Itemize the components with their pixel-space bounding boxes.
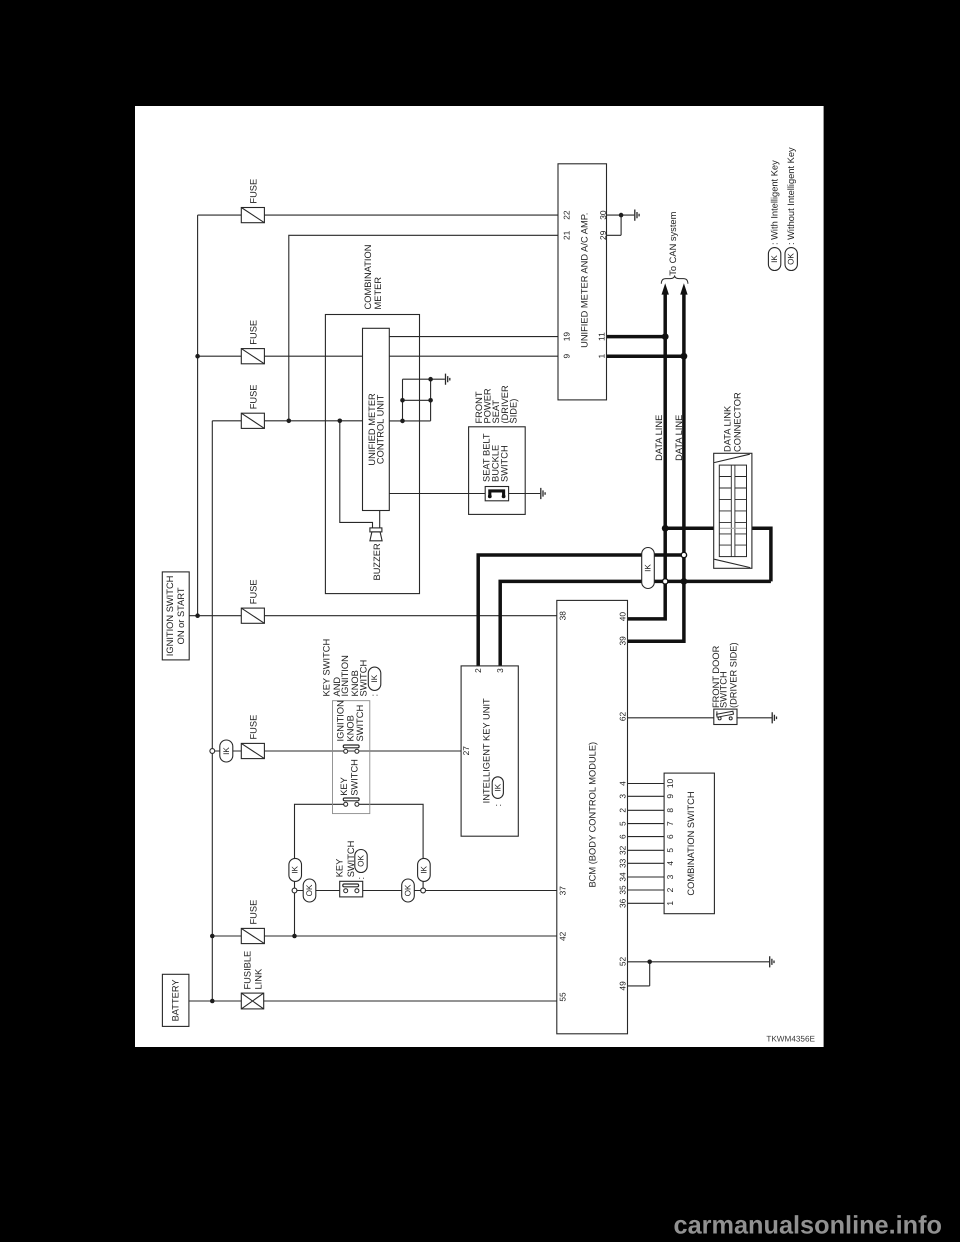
junction dot rail1 fuse2: [195, 354, 200, 359]
blade front door switch: [717, 711, 734, 717]
svg-text:KEY: KEY: [334, 859, 344, 878]
wire seat belt switch: [389, 493, 540, 495]
svg-text:DATA LINE: DATA LINE: [674, 415, 684, 461]
wire BCM pin52 to ground: [628, 961, 770, 963]
svg-text:LINK: LINK: [253, 968, 263, 989]
capsule OK left branch: [303, 879, 316, 902]
svg-text:9: 9: [665, 794, 675, 799]
svg-text:DATA LINE: DATA LINE: [654, 415, 664, 461]
svg-text:FUSE: FUSE: [249, 385, 259, 410]
contact circles front door switch: [718, 717, 721, 720]
svg-text:42: 42: [558, 931, 568, 941]
BCM box: [557, 600, 628, 1033]
capsule IK at fuse5: [220, 740, 233, 762]
svg-text:SWITCH: SWITCH: [358, 660, 368, 697]
capsule OK in key switch OK label: [355, 850, 367, 873]
wire fuse2 feed: [198, 355, 242, 357]
svg-text:IK: IK: [291, 866, 300, 874]
buzzer horn: [370, 532, 382, 541]
wire fuse3 to UMCU: [264, 420, 363, 422]
svg-text:21: 21: [561, 230, 571, 240]
svg-text:COMBINATION: COMBINATION: [363, 245, 373, 310]
plunger key switch: [343, 798, 359, 801]
key switch OK box: [340, 881, 363, 897]
junction dot rail2 battery: [210, 999, 215, 1004]
arrowhead CAN2 to CAN system: [680, 283, 687, 294]
svg-text:11: 11: [597, 332, 607, 341]
svg-text:FUSE: FUSE: [249, 900, 259, 925]
svg-text:METER: METER: [373, 277, 383, 310]
junction dot CAN2 pin1: [681, 353, 688, 360]
svg-text:IGNITION SWITCH: IGNITION SWITCH: [165, 576, 175, 657]
wire IKU pin2 to CAN2: [478, 555, 684, 666]
data link connector box: [714, 453, 752, 568]
fuse F6: [241, 928, 264, 943]
svg-text:SIDE): SIDE): [509, 399, 519, 424]
ground ladder at UMCU: [389, 379, 445, 421]
svg-text:3: 3: [495, 668, 505, 673]
svg-text:CONNECTOR: CONNECTOR: [733, 392, 743, 452]
fuse F1: [241, 208, 264, 223]
svg-text:6: 6: [618, 834, 628, 839]
wires BCM to combination switch: [628, 784, 665, 904]
wire fuse6 feed: [212, 935, 241, 937]
capsule IK on CAN wires: [642, 548, 655, 589]
wire battery to BCM pin55: [189, 1000, 557, 1002]
wire key switch right branch: [357, 804, 423, 890]
svg-text:55: 55: [558, 992, 568, 1002]
fuse F5: [241, 743, 264, 758]
svg-text:OK: OK: [787, 253, 796, 265]
svg-text:(DRIVER SIDE): (DRIVER SIDE): [729, 642, 739, 708]
wire CAN1 to data link connector loop: [665, 528, 771, 581]
svg-text:FUSE: FUSE: [249, 179, 259, 204]
svg-text:IK: IK: [370, 674, 379, 682]
wire BCM pin49: [628, 962, 650, 986]
fusible link: [241, 993, 263, 1009]
svg-text:SWITCH: SWITCH: [718, 671, 728, 708]
svg-text:BCM (BODY CONTROL MODULE): BCM (BODY CONTROL MODULE): [587, 742, 597, 888]
svg-text:19: 19: [561, 332, 571, 342]
connector circle on battery rail at fuse5: [210, 749, 215, 754]
CAN data line 2: [628, 291, 684, 641]
svg-text:ON or START: ON or START: [176, 587, 186, 644]
junction dot fuse3 node B: [287, 419, 292, 424]
capsule IK in KSAIKS label: [368, 667, 381, 690]
capsule IK in IKU label: [492, 777, 503, 799]
junction dot BCM 52/49: [647, 960, 652, 965]
svg-text:6: 6: [665, 834, 675, 839]
svg-text:1: 1: [665, 901, 675, 906]
svg-text::: :: [356, 877, 366, 880]
svg-text:KEY SWITCH: KEY SWITCH: [322, 639, 332, 697]
svg-text:33: 33: [618, 858, 628, 868]
wire ignition rail vertical: [197, 215, 199, 616]
faint wire through DLC: [720, 527, 746, 529]
connector circle CAN2: [681, 552, 686, 557]
svg-text:OK: OK: [357, 855, 366, 867]
wire fuse4 to BCM pin38: [264, 615, 556, 617]
capsule OK right branch: [402, 879, 415, 902]
svg-text:2: 2: [665, 887, 675, 892]
CAN data line 1: [628, 291, 666, 619]
svg-text:SWITCH: SWITCH: [499, 445, 509, 482]
svg-text:62: 62: [618, 712, 628, 722]
svg-text:KEY: KEY: [339, 777, 349, 796]
svg-text:FUSE: FUSE: [249, 715, 259, 740]
combination switch box: [664, 773, 714, 914]
plunger key switch OK: [343, 884, 359, 887]
svg-text:CONTROL UNIT: CONTROL UNIT: [375, 394, 385, 464]
wire umac pin29: [607, 215, 622, 235]
wire UMCU to pin19: [389, 336, 558, 338]
svg-text:: With Intelligent Key: : With Intelligent Key: [770, 160, 780, 245]
svg-text:To CAN system: To CAN system: [668, 211, 678, 275]
junction dot CAN2 DLC return: [681, 578, 688, 585]
buzzer bar: [370, 528, 382, 532]
front power seat box: [469, 427, 526, 515]
svg-text:49: 49: [618, 981, 628, 991]
svg-text:10: 10: [665, 779, 675, 789]
wire UMCU to buzzer: [379, 511, 381, 528]
svg-text:DATA LINK: DATA LINK: [722, 405, 732, 452]
connector circle CAN1: [663, 579, 668, 584]
svg-text:52: 52: [618, 957, 628, 967]
junction dot buzzer feed: [338, 419, 343, 424]
junction dot rail1 ignition: [195, 613, 200, 618]
svg-text:SWITCH: SWITCH: [355, 705, 365, 742]
svg-text:IK: IK: [493, 783, 502, 791]
contact circles ignition knob switch: [344, 717, 733, 893]
plunger ignition knob switch: [343, 745, 359, 748]
ground at seat belt switch: [541, 488, 545, 499]
legend IK capsule: [768, 248, 780, 271]
svg-text:IGNITION: IGNITION: [340, 655, 350, 696]
svg-text:22: 22: [561, 210, 571, 220]
svg-text:COMBINATION SWITCH: COMBINATION SWITCH: [686, 791, 696, 895]
wire fuse1 to pin22: [264, 214, 558, 216]
unified meter and ac amp box: [558, 164, 607, 400]
fuse F2: [241, 349, 264, 364]
svg-text:INTELLIGENT KEY UNIT: INTELLIGENT KEY UNIT: [481, 698, 491, 803]
svg-text:OK: OK: [404, 884, 413, 896]
front door switch box: [714, 709, 737, 724]
svg-text:BUZZER: BUZZER: [372, 543, 382, 580]
brace to CAN system: [661, 275, 688, 283]
connector circle right OK branch: [421, 888, 426, 893]
ground at front door switch: [772, 712, 776, 723]
svg-text:IK: IK: [222, 747, 231, 755]
data link connector grid: [719, 465, 746, 556]
svg-text:36: 36: [618, 898, 628, 908]
svg-text:32: 32: [618, 845, 628, 855]
wire door switch to ground: [737, 717, 772, 719]
key switch and ignition knob switch outer box: [333, 701, 370, 814]
wire fuse2 to UMCU: [264, 355, 363, 357]
svg-text:3: 3: [665, 874, 675, 879]
svg-text:IK: IK: [770, 255, 779, 263]
wire IKU pin3 to CAN1 and DLC return: [500, 581, 771, 666]
svg-text:7: 7: [665, 821, 675, 826]
svg-text:1: 1: [597, 354, 607, 359]
svg-text:IK: IK: [644, 564, 653, 572]
wire ignition switch out: [189, 615, 241, 617]
svg-text:TKWM4356E: TKWM4356E: [766, 1035, 815, 1044]
intelligent key unit box: [461, 666, 518, 836]
svg-text:UNIFIED METER AND A/C AMP.: UNIFIED METER AND A/C AMP.: [580, 213, 590, 348]
svg-text:IGNITION: IGNITION: [336, 700, 346, 741]
ground at BCM pin52: [770, 956, 774, 967]
junction dot CAN1 pin11: [662, 333, 669, 340]
svg-text:IK: IK: [419, 866, 428, 874]
svg-text:carmanualsonline.info: carmanualsonline.info: [674, 1212, 942, 1240]
wire umac pin11 to CAN1: [607, 335, 666, 339]
junction dot OK branch fuse6: [292, 934, 297, 939]
unified meter control unit box: [363, 328, 390, 510]
junction dot rail2 fuse6: [210, 934, 215, 939]
svg-text:29: 29: [598, 230, 608, 240]
connector circle left OK branch: [292, 888, 297, 893]
svg-text:35: 35: [618, 885, 628, 895]
svg-text:2: 2: [618, 808, 628, 813]
svg-text:8: 8: [665, 808, 675, 813]
svg-text:FUSIBLE: FUSIBLE: [243, 951, 253, 990]
svg-text:OK: OK: [305, 884, 314, 896]
wire battery rail vertical: [211, 421, 213, 1001]
wire fuse3 feed: [212, 420, 241, 422]
svg-text:27: 27: [461, 746, 471, 756]
svg-text:4: 4: [665, 861, 675, 866]
wire buzzer feed: [340, 421, 373, 528]
svg-text::: :: [493, 804, 503, 807]
svg-text:SWITCH: SWITCH: [350, 759, 360, 796]
svg-text:3: 3: [618, 794, 628, 799]
junction dot umac ground: [619, 213, 624, 218]
svg-text:4: 4: [618, 781, 628, 786]
svg-text:38: 38: [558, 611, 568, 621]
svg-text:: Without Intelligent Key: : Without Intelligent Key: [786, 147, 796, 245]
wire fuse5 feed: [212, 750, 241, 752]
wire fuse6 to BCM pin42: [264, 935, 557, 937]
fuse F4: [241, 608, 264, 623]
ground at umac amp: [635, 210, 639, 221]
seat belt buckle switch box: [485, 487, 508, 501]
svg-text:FUSE: FUSE: [249, 320, 259, 345]
arrowhead CAN1 to CAN system: [662, 283, 669, 294]
capsule IK left branch: [289, 858, 302, 881]
junction dot CAN1 DLC: [662, 525, 669, 532]
fuse F3: [241, 413, 264, 428]
svg-text:30: 30: [598, 210, 608, 220]
svg-text:37: 37: [558, 886, 568, 896]
svg-text:BATTERY: BATTERY: [171, 979, 181, 1021]
capsule IK right branch: [418, 858, 431, 881]
svg-text:34: 34: [618, 872, 628, 882]
legend OK capsule: [785, 248, 797, 271]
wire key switch left branch: [295, 804, 346, 936]
svg-text:40: 40: [618, 612, 628, 622]
battery box: [162, 974, 189, 1026]
wire BCM pin62 to door switch: [628, 717, 714, 719]
ignition switch box: [162, 572, 189, 660]
junction dots ground ladder: [428, 377, 433, 382]
contact circles key switch: [344, 802, 348, 806]
wire node B to pin21: [289, 235, 558, 420]
contact circles key switch OK: [344, 889, 348, 893]
svg-text:5: 5: [665, 848, 675, 853]
svg-text:KNOB: KNOB: [345, 715, 355, 741]
wire umac pin30 to ground: [607, 214, 635, 216]
wire fuse5 to knob switch and IKU pin27: [264, 750, 461, 752]
combination meter box: [325, 315, 419, 594]
wire OK branch to BCM pin37: [295, 890, 557, 892]
svg-text:FUSE: FUSE: [249, 579, 259, 604]
svg-text:39: 39: [618, 636, 628, 646]
wire fuse1 feed: [198, 214, 242, 216]
wire umac pin1 to CAN2: [607, 354, 684, 358]
svg-text:9: 9: [561, 354, 571, 359]
ground at UMCU ladder: [446, 374, 450, 385]
svg-text:5: 5: [618, 821, 628, 826]
svg-text:2: 2: [473, 668, 483, 673]
wire UMCU to pin9: [389, 355, 558, 357]
svg-text::: :: [370, 694, 380, 697]
seat belt buckle glyph: [490, 491, 504, 497]
